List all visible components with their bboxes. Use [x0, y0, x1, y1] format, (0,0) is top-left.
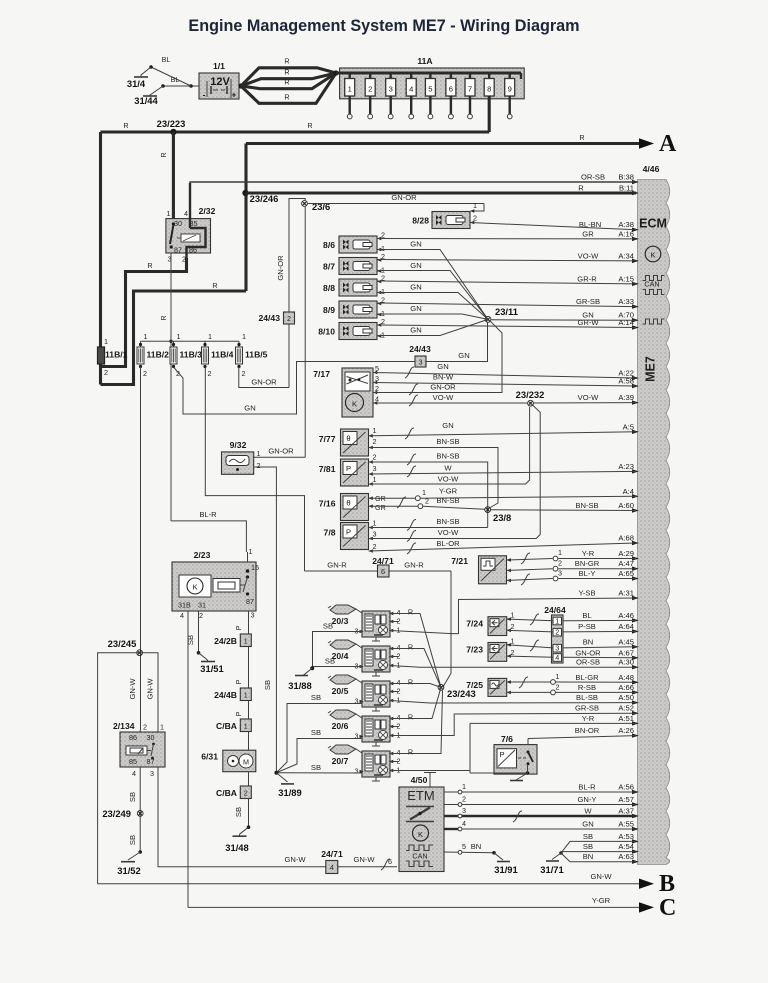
svg-text:2: 2: [143, 369, 147, 378]
svg-text:A: A: [659, 131, 677, 157]
svg-text:7/6: 7/6: [501, 734, 513, 744]
svg-text:K: K: [650, 251, 655, 260]
svg-text:1: 1: [177, 332, 181, 341]
svg-text:23/245: 23/245: [108, 638, 137, 649]
svg-text:P: P: [346, 528, 351, 537]
svg-text:R: R: [408, 678, 413, 687]
svg-text:A:66: A:66: [618, 683, 634, 692]
svg-text:A:53: A:53: [618, 832, 634, 841]
svg-text:23/246: 23/246: [250, 193, 279, 204]
svg-text:3: 3: [558, 569, 562, 578]
svg-text:A:31: A:31: [618, 589, 634, 598]
svg-text:GN-OR: GN-OR: [251, 378, 277, 387]
svg-text:6/31: 6/31: [201, 752, 218, 762]
svg-text:8/6: 8/6: [323, 240, 335, 250]
svg-text:7/17: 7/17: [313, 369, 330, 379]
svg-text:P: P: [234, 711, 243, 716]
svg-text:BL: BL: [171, 75, 180, 84]
svg-text:Y-R: Y-R: [582, 714, 595, 723]
svg-text:GN: GN: [410, 283, 421, 292]
svg-text:A:46: A:46: [618, 611, 634, 620]
svg-text:CAN: CAN: [412, 852, 427, 861]
svg-text:8/7: 8/7: [323, 262, 335, 272]
svg-text:R: R: [408, 748, 413, 757]
svg-text:7/25: 7/25: [466, 680, 483, 690]
svg-text:GN: GN: [410, 261, 421, 270]
svg-text:A:51: A:51: [618, 714, 634, 723]
svg-text:P: P: [234, 679, 243, 684]
svg-text:2/23: 2/23: [194, 550, 211, 560]
svg-text:SB: SB: [186, 635, 195, 645]
svg-text:7/81: 7/81: [319, 464, 336, 474]
svg-text:A:16: A:16: [618, 229, 634, 238]
svg-text:K: K: [192, 583, 197, 592]
svg-text:A:15: A:15: [618, 274, 634, 283]
svg-text:A:23: A:23: [618, 462, 634, 471]
svg-text:SB: SB: [311, 763, 321, 772]
svg-text:SB: SB: [323, 622, 333, 631]
svg-text:A:37: A:37: [618, 807, 634, 816]
svg-text:P: P: [234, 625, 243, 630]
svg-text:4: 4: [330, 863, 334, 872]
svg-text:A:56: A:56: [618, 783, 634, 792]
svg-text:BL: BL: [162, 55, 171, 64]
svg-text:BN-SB: BN-SB: [436, 437, 459, 446]
svg-text:31/4: 31/4: [127, 78, 146, 89]
svg-text:1: 1: [160, 723, 164, 732]
svg-text:SB: SB: [311, 728, 321, 737]
svg-text:CAN: CAN: [644, 280, 659, 289]
svg-text:Y-GR: Y-GR: [439, 487, 458, 496]
svg-text:3: 3: [462, 806, 466, 815]
svg-text:BL-SB: BL-SB: [576, 693, 598, 702]
svg-text:8/9: 8/9: [323, 305, 335, 315]
svg-text:8/8: 8/8: [323, 283, 335, 293]
svg-text:31/52: 31/52: [117, 865, 140, 876]
svg-text:4: 4: [555, 653, 559, 662]
svg-text:GN-OR: GN-OR: [575, 648, 601, 657]
svg-text:15: 15: [251, 563, 259, 572]
svg-text:θ: θ: [346, 499, 350, 508]
svg-text:C/BA: C/BA: [216, 721, 237, 731]
svg-text:BN: BN: [471, 842, 482, 851]
svg-text:2: 2: [368, 85, 372, 94]
svg-text:Y-SB: Y-SB: [578, 589, 595, 598]
svg-text:A:39: A:39: [618, 393, 634, 402]
svg-text:23/8: 23/8: [493, 512, 511, 523]
svg-text:3: 3: [355, 697, 359, 706]
svg-text:GN-R: GN-R: [327, 561, 347, 570]
svg-text:GN: GN: [410, 240, 421, 249]
svg-text:BN: BN: [583, 637, 594, 646]
svg-text:C: C: [659, 895, 676, 921]
svg-text:BN-OR: BN-OR: [575, 726, 600, 735]
svg-text:2: 2: [143, 723, 147, 732]
svg-text:1: 1: [473, 201, 477, 210]
svg-text:OR-SB: OR-SB: [576, 658, 600, 667]
svg-text:GR-W: GR-W: [577, 318, 599, 327]
svg-text:GN-OR: GN-OR: [391, 193, 417, 202]
svg-text:GR: GR: [375, 503, 386, 512]
svg-text:2/134: 2/134: [113, 721, 135, 731]
svg-text:4/46: 4/46: [643, 164, 660, 174]
svg-text:86: 86: [129, 733, 137, 742]
svg-text:R: R: [159, 152, 168, 157]
svg-text:2: 2: [242, 369, 246, 378]
svg-text:3: 3: [150, 769, 154, 778]
svg-text:ETM: ETM: [407, 788, 434, 803]
svg-text:BN-SB: BN-SB: [436, 496, 459, 505]
svg-text:BL-R: BL-R: [578, 783, 596, 792]
svg-text:A:50: A:50: [618, 693, 634, 702]
svg-text:1: 1: [462, 782, 466, 791]
svg-text:2: 2: [257, 461, 261, 470]
svg-text:3: 3: [251, 611, 255, 620]
svg-text:A:67: A:67: [618, 648, 634, 657]
svg-text:11B/4: 11B/4: [211, 350, 234, 360]
svg-text:4: 4: [409, 85, 413, 94]
svg-text:1: 1: [244, 637, 248, 646]
svg-text:1: 1: [373, 426, 377, 435]
svg-text:2: 2: [287, 314, 291, 323]
svg-text:1: 1: [397, 626, 401, 635]
svg-text:24/43: 24/43: [409, 344, 431, 354]
svg-text:31/88: 31/88: [288, 680, 311, 691]
svg-text:1: 1: [558, 548, 562, 557]
svg-text:GN-W: GN-W: [353, 855, 375, 864]
svg-text:87: 87: [246, 597, 254, 606]
svg-text:θ: θ: [346, 434, 350, 443]
svg-text:3: 3: [419, 358, 423, 367]
svg-text:31: 31: [198, 601, 206, 610]
svg-text:R: R: [408, 713, 413, 722]
svg-text:23/232: 23/232: [516, 389, 545, 400]
svg-text:1: 1: [257, 449, 261, 458]
svg-text:A:54: A:54: [618, 842, 634, 851]
svg-text:7/24: 7/24: [466, 619, 483, 629]
svg-text:Y-R: Y-R: [582, 549, 595, 558]
svg-text:W: W: [444, 464, 452, 473]
svg-text:B: B: [659, 871, 675, 897]
svg-text:4: 4: [132, 769, 136, 778]
svg-text:2: 2: [556, 683, 560, 692]
svg-text:1: 1: [144, 332, 148, 341]
svg-text:24/2B: 24/2B: [214, 636, 237, 646]
svg-text:A:64: A:64: [618, 622, 634, 631]
svg-text:2/32: 2/32: [199, 206, 216, 216]
svg-text:24/4B: 24/4B: [214, 690, 237, 700]
svg-text:BN-SB: BN-SB: [436, 517, 459, 526]
svg-text:1: 1: [373, 475, 377, 484]
svg-text:5: 5: [462, 842, 466, 851]
svg-text:20/3: 20/3: [332, 616, 349, 626]
svg-text:W: W: [584, 807, 592, 816]
svg-text:R: R: [284, 93, 289, 102]
svg-text:3: 3: [355, 732, 359, 741]
svg-text:VO-W: VO-W: [438, 528, 460, 537]
svg-text:1: 1: [556, 672, 560, 681]
svg-text:1: 1: [208, 332, 212, 341]
svg-text:GR-SB: GR-SB: [576, 297, 600, 306]
svg-text:1/1: 1/1: [213, 61, 225, 71]
svg-text:BN-SB: BN-SB: [575, 501, 598, 510]
svg-text:4/50: 4/50: [411, 775, 428, 785]
svg-text:GR-SB: GR-SB: [575, 704, 599, 713]
svg-text:GR-R: GR-R: [577, 274, 597, 283]
svg-text:B:38: B:38: [618, 173, 634, 182]
svg-text:-: -: [203, 90, 206, 100]
svg-text:A:63: A:63: [618, 852, 634, 861]
svg-text:31/89: 31/89: [278, 787, 301, 798]
svg-text:20/7: 20/7: [332, 756, 349, 766]
svg-text:4: 4: [462, 819, 466, 828]
svg-text:3: 3: [373, 530, 377, 539]
svg-text:Y-GR: Y-GR: [592, 896, 611, 905]
svg-text:A:65: A:65: [618, 569, 634, 578]
svg-text:1: 1: [397, 661, 401, 670]
svg-text:31/48: 31/48: [225, 842, 248, 853]
svg-text:GN: GN: [442, 421, 453, 430]
svg-text:2: 2: [208, 369, 212, 378]
svg-text:SB: SB: [325, 657, 335, 666]
svg-text:1: 1: [397, 696, 401, 705]
svg-text:GN-W: GN-W: [146, 678, 155, 700]
svg-text:7/16: 7/16: [319, 499, 336, 509]
svg-text:GN: GN: [244, 404, 255, 413]
svg-text:SB: SB: [128, 835, 137, 845]
svg-text:BL-Y: BL-Y: [579, 569, 596, 578]
svg-text:23/223: 23/223: [157, 118, 186, 129]
svg-text:A:33: A:33: [618, 297, 634, 306]
svg-text:P-SB: P-SB: [578, 622, 596, 631]
svg-text:11B/3: 11B/3: [180, 350, 203, 360]
svg-text:BN-W: BN-W: [433, 373, 454, 382]
svg-text:R: R: [408, 643, 413, 652]
svg-text:23/11: 23/11: [495, 306, 518, 317]
svg-text:3: 3: [555, 644, 559, 653]
svg-text:2: 2: [558, 559, 562, 568]
svg-text:31/71: 31/71: [540, 864, 563, 875]
svg-text:R: R: [123, 121, 128, 130]
svg-text:7/77: 7/77: [319, 434, 336, 444]
svg-text:9/32: 9/32: [230, 440, 247, 450]
svg-text:A:47: A:47: [618, 559, 634, 568]
svg-text:24/64: 24/64: [544, 605, 566, 615]
svg-text:A:30: A:30: [618, 658, 634, 667]
svg-text:GN: GN: [437, 362, 448, 371]
svg-text:SB: SB: [311, 693, 321, 702]
svg-text:B:11: B:11: [619, 184, 634, 193]
svg-text:VO-W: VO-W: [578, 393, 600, 402]
svg-text:R-SB: R-SB: [578, 683, 596, 692]
svg-text:K: K: [352, 400, 357, 409]
svg-text:31/44: 31/44: [134, 95, 158, 106]
svg-text:VO-W: VO-W: [578, 251, 600, 260]
svg-text:P: P: [499, 750, 504, 759]
svg-text:GN-OR: GN-OR: [268, 447, 294, 456]
svg-text:2: 2: [555, 628, 559, 637]
svg-text:+: +: [231, 90, 236, 100]
svg-text:1: 1: [511, 611, 515, 620]
svg-text:1: 1: [244, 691, 248, 700]
svg-text:4: 4: [184, 209, 188, 218]
svg-text:2: 2: [473, 214, 477, 223]
svg-text:1: 1: [242, 332, 246, 341]
svg-text:GN: GN: [410, 326, 421, 335]
svg-text:SB: SB: [583, 832, 593, 841]
svg-text:GN-W: GN-W: [284, 855, 306, 864]
svg-text:R: R: [284, 57, 289, 66]
svg-text:GN: GN: [582, 820, 593, 829]
svg-text:R: R: [579, 133, 584, 142]
svg-text:SB: SB: [234, 807, 243, 817]
svg-text:A:68: A:68: [618, 534, 634, 543]
svg-text:SB: SB: [263, 680, 272, 690]
svg-text:2: 2: [375, 384, 379, 393]
svg-text:1: 1: [249, 547, 253, 556]
svg-text:3: 3: [375, 374, 379, 383]
svg-text:7/8: 7/8: [324, 528, 336, 538]
svg-text:5: 5: [375, 364, 379, 373]
svg-text:1: 1: [348, 85, 352, 94]
svg-text:23/249: 23/249: [102, 808, 131, 819]
svg-text:3: 3: [355, 767, 359, 776]
svg-text:GN: GN: [410, 304, 421, 313]
svg-text:4: 4: [180, 611, 184, 620]
svg-text:2: 2: [373, 437, 377, 446]
svg-text:C/BA: C/BA: [216, 788, 237, 798]
svg-text:GR: GR: [582, 229, 594, 238]
svg-text:20/6: 20/6: [332, 721, 349, 731]
svg-text:24/71: 24/71: [321, 849, 343, 859]
svg-text:2: 2: [462, 795, 466, 804]
svg-text:2: 2: [373, 542, 377, 551]
svg-text:A:60: A:60: [618, 501, 634, 510]
svg-text:8/28: 8/28: [412, 216, 429, 226]
svg-text:85: 85: [129, 757, 137, 766]
svg-text:A:55: A:55: [618, 820, 634, 829]
svg-text:GN-OR: GN-OR: [430, 383, 456, 392]
svg-text:8/10: 8/10: [318, 327, 335, 337]
svg-text:2: 2: [511, 622, 515, 631]
svg-text:BN: BN: [583, 852, 594, 861]
svg-text:23/6: 23/6: [312, 201, 330, 212]
svg-text:31B: 31B: [178, 601, 191, 610]
svg-text:ME7: ME7: [644, 356, 658, 382]
svg-text:1: 1: [167, 209, 171, 218]
svg-text:R: R: [408, 608, 413, 617]
svg-text:2: 2: [511, 648, 515, 657]
svg-text:A:45: A:45: [618, 637, 634, 646]
svg-text:VO-W: VO-W: [438, 475, 460, 484]
svg-text:R: R: [212, 281, 217, 290]
svg-text:30: 30: [147, 733, 155, 742]
svg-text:A:57: A:57: [618, 795, 634, 804]
svg-text:BL: BL: [582, 611, 591, 620]
svg-text:6: 6: [449, 85, 453, 94]
svg-text:31/51: 31/51: [200, 663, 223, 674]
svg-text:ECM: ECM: [639, 217, 667, 231]
svg-text:7/23: 7/23: [466, 645, 483, 655]
svg-text:A:48: A:48: [618, 673, 634, 682]
svg-text:BN-GR: BN-GR: [575, 559, 600, 568]
svg-text:SB: SB: [583, 842, 593, 851]
svg-text:2: 2: [373, 453, 377, 462]
svg-text:2: 2: [244, 789, 248, 798]
svg-text:11B/1: 11B/1: [105, 350, 128, 360]
svg-text:P: P: [346, 464, 351, 473]
svg-text:30: 30: [174, 219, 182, 228]
svg-text:8: 8: [487, 85, 491, 94]
svg-text:A:29: A:29: [618, 549, 634, 558]
svg-text:K: K: [418, 830, 423, 839]
svg-text:BL-GR: BL-GR: [575, 673, 599, 682]
svg-text:1: 1: [511, 637, 515, 646]
svg-text:87: 87: [174, 246, 182, 255]
svg-text:Engine Management System ME7 -: Engine Management System ME7 - Wiring Di…: [188, 17, 579, 35]
svg-text:A:14: A:14: [618, 318, 634, 327]
svg-text:BN-SB: BN-SB: [436, 452, 459, 461]
svg-text:A:38: A:38: [618, 220, 634, 229]
svg-text:5: 5: [428, 85, 432, 94]
svg-text:11B/2: 11B/2: [147, 350, 170, 360]
svg-text:3: 3: [389, 85, 393, 94]
svg-text:GN-W: GN-W: [590, 872, 612, 881]
svg-text:BL-OR: BL-OR: [436, 539, 460, 548]
svg-text:M: M: [243, 758, 249, 767]
svg-text:2: 2: [199, 611, 203, 620]
svg-text:R: R: [578, 184, 584, 193]
svg-text:R: R: [284, 78, 289, 87]
svg-text:SB: SB: [128, 792, 137, 802]
svg-text:R: R: [159, 315, 168, 320]
svg-text:VO-W: VO-W: [433, 393, 455, 402]
svg-text:A:26: A:26: [618, 726, 634, 735]
svg-text:1: 1: [104, 337, 108, 346]
svg-text:GN: GN: [458, 351, 469, 360]
svg-text:GN-R: GN-R: [404, 561, 424, 570]
svg-text:A:52: A:52: [618, 704, 634, 713]
svg-text:24/71: 24/71: [372, 556, 394, 566]
svg-text:1: 1: [244, 722, 248, 731]
svg-text:R: R: [307, 121, 312, 130]
svg-text:R: R: [147, 261, 152, 270]
svg-text:7/21: 7/21: [451, 556, 468, 566]
svg-text:31/91: 31/91: [494, 864, 517, 875]
svg-text:11B/5: 11B/5: [245, 350, 268, 360]
svg-text:A:34: A:34: [618, 251, 634, 260]
svg-text:6: 6: [381, 567, 385, 576]
svg-text:GN-OR: GN-OR: [276, 255, 285, 281]
svg-text:4: 4: [375, 395, 379, 404]
svg-text:11A: 11A: [417, 56, 432, 66]
svg-text:6: 6: [388, 857, 392, 866]
svg-text:BL-R: BL-R: [199, 510, 217, 519]
svg-text:GN-W: GN-W: [128, 678, 137, 700]
svg-text:2: 2: [104, 368, 108, 377]
svg-text:GN-Y: GN-Y: [578, 795, 597, 804]
svg-text:R: R: [284, 68, 289, 77]
svg-text:9: 9: [508, 85, 512, 94]
svg-text:1: 1: [373, 519, 377, 528]
svg-text:7: 7: [468, 85, 472, 94]
svg-text:24/43: 24/43: [258, 313, 280, 323]
svg-text:3: 3: [373, 464, 377, 473]
svg-text:1: 1: [555, 617, 559, 626]
svg-text:20/5: 20/5: [332, 686, 349, 696]
svg-text:OR-SB: OR-SB: [581, 173, 605, 182]
